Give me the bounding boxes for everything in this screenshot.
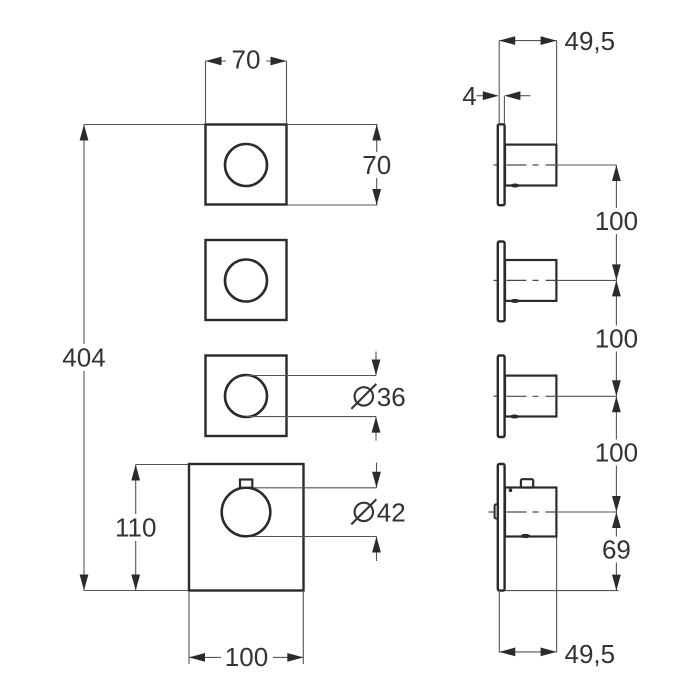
side view 4 screw mark	[521, 534, 531, 538]
arrow 49.5 bottom left	[499, 648, 515, 657]
label 70 top	[226, 45, 266, 75]
arrow 404 top	[80, 125, 89, 141]
arrow D36 top	[372, 352, 381, 376]
svg-text:4: 4	[462, 81, 476, 111]
svg-text:404: 404	[62, 343, 105, 373]
arrow chain up at sv3	[612, 396, 621, 412]
front square 3	[206, 356, 287, 437]
chain dim line 100 seg3	[615, 396, 617, 512]
dim 70 top line	[206, 61, 287, 125]
knob circle 1	[225, 144, 267, 186]
arrow chain down at sv3	[612, 380, 621, 396]
svg-text:42: 42	[377, 497, 406, 527]
arrow 70 right bottom	[372, 189, 381, 205]
dim 49.5 top	[499, 41, 556, 145]
arrow 49.5 top right	[541, 36, 557, 45]
arrow chain down at sv2	[612, 264, 621, 280]
arrow chain down at 69 end	[612, 575, 621, 591]
label 4	[462, 81, 476, 111]
big knob circle	[222, 488, 271, 537]
arrow 49.5 top left	[499, 36, 515, 45]
side view 1 plate	[498, 124, 505, 205]
svg-text:100: 100	[225, 642, 268, 672]
dim 404 line	[83, 125, 85, 591]
svg-text:100: 100	[595, 206, 638, 236]
front square 1	[206, 125, 287, 205]
dim 100 bottom line	[189, 656, 303, 658]
arrow 100 bottom right	[287, 653, 303, 662]
extension line right bottom y=590.6	[505, 590, 619, 592]
svg-text:100: 100	[595, 438, 638, 468]
arrow 110 top	[131, 465, 140, 481]
extension line right of square1 bottom y=205	[287, 204, 378, 206]
chain dim line 100 seg2	[615, 280, 617, 396]
arrow 70 right top	[372, 125, 381, 141]
arrow chain up at sv4	[612, 512, 621, 528]
arrow 4 right	[504, 91, 520, 100]
arrow D42 bottom	[372, 537, 381, 562]
label 100 seg2	[591, 324, 643, 354]
arrow 70 top right	[271, 57, 287, 66]
arrow 70 top left	[206, 57, 222, 66]
label 100 seg1	[591, 206, 643, 236]
arrow 4 left	[483, 91, 499, 100]
side view 4 tab	[521, 479, 533, 487]
side view 1 body	[505, 145, 556, 186]
chain dim line 69 seg4	[615, 512, 617, 591]
dim 4	[477, 96, 531, 124]
svg-text:70: 70	[362, 150, 391, 180]
extension line bottom y=590.5	[84, 590, 190, 592]
label 100 bottom	[221, 642, 273, 672]
side view 2 screw mark	[510, 299, 519, 303]
svg-text:100: 100	[595, 324, 638, 354]
front square 2	[206, 240, 287, 320]
extension line below big square left	[188, 592, 190, 664]
svg-text:36: 36	[377, 382, 406, 412]
side view 3 screw mark	[510, 415, 519, 419]
label 49.5 top	[565, 26, 616, 56]
side view 1 centerline	[494, 164, 617, 166]
svg-text:49,5: 49,5	[565, 26, 616, 56]
svg-text:49,5: 49,5	[565, 639, 616, 669]
arrow D42 top	[372, 463, 381, 488]
arrow chain up at sv2	[612, 280, 621, 296]
dimension line D42 top tangent	[252, 487, 376, 489]
dimension line D42 bottom tangent	[246, 536, 377, 538]
svg-text:70: 70	[232, 45, 261, 75]
arrow D36 bottom	[372, 417, 381, 441]
svg-text:69: 69	[602, 535, 631, 565]
side view 4 body	[505, 488, 556, 537]
side view 2 centerline	[494, 279, 617, 281]
svg-text:110: 110	[115, 513, 156, 543]
label 70 right	[357, 150, 397, 180]
side view 3 body	[505, 376, 556, 417]
label D42	[351, 497, 405, 527]
label 404	[60, 343, 108, 373]
label D36	[351, 382, 405, 412]
dim 70 right line	[376, 125, 378, 206]
side view 2 body	[505, 260, 556, 301]
side view 4 plate	[498, 464, 505, 591]
front big square	[189, 464, 304, 591]
arrow chain down at sv4	[612, 496, 621, 512]
extension line top y=124.5	[84, 124, 378, 126]
knob circle 2	[225, 260, 267, 302]
knob circle 3	[225, 375, 267, 417]
label 100 seg3	[591, 438, 643, 468]
extension line 110 top	[136, 464, 189, 466]
dimension line D36 bottom tangent	[246, 416, 376, 418]
label 49.5 bottom	[565, 639, 616, 669]
chain dim line 100 seg1	[615, 165, 617, 280]
big knob tab	[240, 480, 252, 488]
label 69	[596, 535, 637, 565]
side view 4 centerline	[489, 511, 617, 513]
side view 3 plate	[498, 356, 505, 438]
side view 3 centerline	[494, 395, 617, 397]
dimension line D36 top tangent	[246, 375, 376, 377]
arrow 110 bottom	[131, 575, 140, 591]
arrow 404 bottom	[80, 575, 89, 591]
arrow 100 bottom left	[189, 653, 205, 662]
dim 110 line	[135, 465, 137, 591]
side view 2 plate	[498, 242, 505, 322]
side view 4 left bump	[495, 504, 500, 518]
dim 49.5 bottom	[499, 538, 556, 653]
arrow 49.5 bottom right	[541, 648, 557, 657]
label 110	[112, 513, 160, 543]
side view 1 screw mark	[510, 184, 519, 188]
side view 4 dot	[509, 489, 513, 493]
arrow chain up at sv1	[612, 165, 621, 181]
extension line below big square right	[302, 592, 304, 664]
